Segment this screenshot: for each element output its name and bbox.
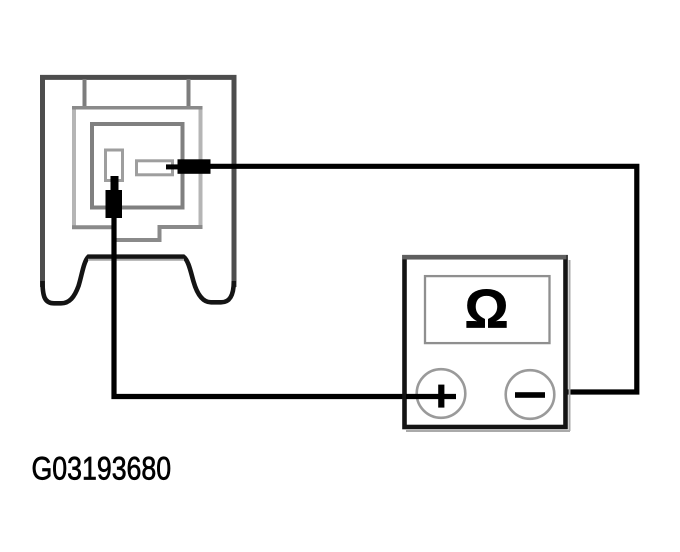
fuse housing body (top/left/right outline): [43, 77, 235, 287]
ohmmeter box: [405, 257, 566, 427]
terminal pin 1 (left, vertical): [106, 150, 123, 181]
wire: pin 1 probe to meter plus terminal: [114, 218, 456, 397]
probe body on pin 1: [106, 190, 123, 218]
meter display: [425, 276, 550, 343]
latch line left: [83, 79, 87, 108]
svg-text:Ω: Ω: [464, 278, 508, 340]
probe body on pin 2: [178, 159, 211, 174]
inner shell C outline: [92, 124, 183, 208]
probe tip on pin 1: [111, 176, 119, 191]
latch line right: [187, 79, 191, 108]
ohmmeter shadow bottom: [406, 430, 570, 432]
meter plus terminal circle: [417, 369, 466, 418]
plus sign vertical bar: [438, 385, 444, 408]
fuse housing legs and bridge outline: [43, 257, 234, 304]
inner shell B outline: [72, 106, 203, 240]
ohmmeter box top edge (lighter): [403, 255, 567, 259]
ohmmeter shadow right: [569, 260, 571, 431]
probe tip on pin 2: [166, 164, 179, 169]
wire: pin 2 probe to meter minus terminal: [210, 166, 637, 392]
terminal pin 2 (right, horizontal): [137, 161, 173, 175]
svg-text:G03193680: G03193680: [32, 451, 172, 487]
plus sign horizontal (wire continues into circle): [406, 394, 456, 399]
minus sign bar: [515, 392, 545, 398]
meter minus terminal circle: [506, 370, 555, 419]
gray line under bridge: [88, 259, 184, 261]
